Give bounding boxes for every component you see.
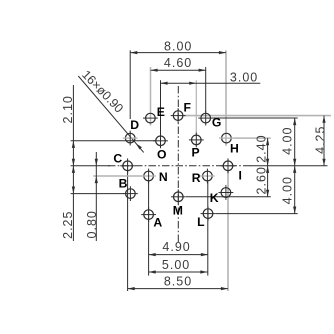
extension line pin H column xyxy=(225,50,227,146)
svg-text:2.60: 2.60 xyxy=(255,166,269,194)
extension line pin O row xyxy=(71,140,156,142)
extension line pin M row xyxy=(186,196,271,198)
svg-text:4.60: 4.60 xyxy=(164,56,192,70)
svg-text:R: R xyxy=(192,171,201,185)
svg-text:K: K xyxy=(210,191,219,205)
pin L (hole ø0.90 with center marks and label) xyxy=(197,206,215,229)
pin R (hole ø0.90 with center marks and label) xyxy=(192,169,215,185)
svg-text:O: O xyxy=(157,147,166,161)
pin G (hole ø0.90 with center marks and label) xyxy=(198,111,221,130)
svg-text:2.40: 2.40 xyxy=(254,134,268,162)
pin F (hole ø0.90 with center marks and label) xyxy=(171,100,191,123)
extension line pin G column xyxy=(205,67,207,113)
svg-text:A: A xyxy=(153,215,162,229)
dimension 4.00 upper (pins E/G row to centerline) xyxy=(281,118,297,214)
extension line pin C column xyxy=(127,171,129,291)
svg-text:4.90: 4.90 xyxy=(162,240,190,254)
extension line pins R/L column xyxy=(207,182,209,276)
pin I (hole ø0.90 with center marks and label) xyxy=(221,158,242,182)
pin C (hole ø0.90 with center marks and label) xyxy=(113,152,135,174)
svg-text:H: H xyxy=(230,142,239,156)
svg-text:I: I xyxy=(239,169,242,183)
extension line pins N/A column xyxy=(148,182,150,276)
svg-text:0.80: 0.80 xyxy=(85,210,99,238)
pin M (hole ø0.90 with center marks and label) xyxy=(171,189,186,217)
extension line pin N row xyxy=(93,175,142,177)
dimension 4.90 (pins A to L) xyxy=(149,240,208,256)
svg-text:D: D xyxy=(130,118,139,132)
svg-text:5.00: 5.00 xyxy=(162,258,190,272)
svg-text:M: M xyxy=(173,203,183,217)
dimension 5.00 (pins N to R) xyxy=(149,258,208,273)
dimension 0.80 (centerline to pin N row) xyxy=(85,152,99,241)
extension line pin H row xyxy=(234,137,271,139)
horizontal centerline through pins C and I xyxy=(71,165,328,167)
svg-text:3.00: 3.00 xyxy=(230,71,258,85)
svg-text:8.00: 8.00 xyxy=(164,40,192,54)
extension line pins E/G row xyxy=(213,117,298,119)
dimension 4.00 lower (centerline to pin L row) xyxy=(281,166,297,214)
svg-text:G: G xyxy=(212,115,221,129)
svg-text:C: C xyxy=(113,152,122,166)
svg-text:N: N xyxy=(159,170,168,184)
extension line pin L row xyxy=(216,213,298,215)
svg-text:8.50: 8.50 xyxy=(164,275,192,289)
dimension 8.00 (pins D to H) xyxy=(130,40,226,55)
dimension 2.60 (centerline to pin M row) xyxy=(255,166,270,197)
pin A (hole ø0.90 with center marks and label) xyxy=(141,207,162,229)
extension line pin B row xyxy=(71,193,124,195)
svg-text:B: B xyxy=(119,177,128,191)
svg-text:4.25: 4.25 xyxy=(314,126,328,154)
svg-text:4.00: 4.00 xyxy=(281,127,295,155)
leader line 16×ø0.90 pointing to pin D xyxy=(78,68,143,153)
extension line pin F row xyxy=(184,115,331,117)
extension line pin I column xyxy=(227,171,229,291)
dimension 8.50 (pins C to I) xyxy=(128,275,228,291)
svg-text:4.00: 4.00 xyxy=(281,176,295,204)
svg-text:L: L xyxy=(197,215,205,229)
vertical centerline through pins F and M xyxy=(177,86,179,244)
pin O (hole ø0.90 with center marks and label) xyxy=(153,133,168,161)
svg-text:F: F xyxy=(183,100,190,114)
dimension 2.10 (pin O row to centerline) xyxy=(61,85,75,241)
dimension 2.25 (centerline to pin B row) xyxy=(61,166,75,239)
svg-text:E: E xyxy=(157,105,165,119)
dimension 3.00 (pins O to P) xyxy=(161,71,261,85)
pin K (hole ø0.90 with center marks and label) xyxy=(210,185,234,205)
pin H (hole ø0.90 with center marks and label) xyxy=(219,133,239,155)
extension line pin E column xyxy=(150,67,152,126)
pin B (hole ø0.90 with center marks and label) xyxy=(119,177,138,202)
pin E (hole ø0.90 with center marks and label) xyxy=(143,105,165,123)
pin D (hole ø0.90 with center marks and label) xyxy=(123,118,139,145)
svg-text:2.10: 2.10 xyxy=(61,95,75,123)
dimension 4.60 (pins E to G) xyxy=(151,56,206,72)
extension line pin O column xyxy=(160,80,162,135)
extension line pin P column xyxy=(195,80,197,134)
svg-text:P: P xyxy=(192,146,200,160)
pin P (hole ø0.90 with center marks and label) xyxy=(189,133,204,160)
dimension 4.25 (pin F row to centerline) xyxy=(314,116,328,166)
extension line pin D column xyxy=(129,50,131,119)
dimension 2.40 (pin H row to centerline) xyxy=(254,134,269,196)
svg-text:2.25: 2.25 xyxy=(61,211,75,239)
pin N (hole ø0.90 with center marks and label) xyxy=(141,169,168,185)
